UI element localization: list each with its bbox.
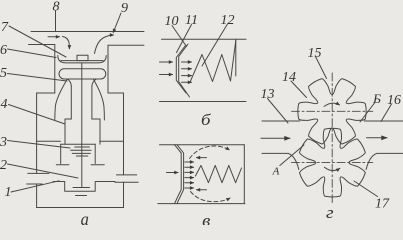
housing bottom	[37, 207, 124, 209]
svg-text:15: 15	[308, 46, 322, 61]
axis vertical	[331, 73, 333, 203]
svg-text:7: 7	[1, 20, 9, 35]
diaphragm mid line	[37, 140, 124, 142]
housing outer wall left	[36, 93, 38, 208]
bell neck right	[92, 79, 97, 86]
valve boss rect	[77, 55, 88, 60]
svg-text:4: 4	[1, 97, 8, 112]
axis horizontal bottom rotor	[292, 162, 373, 164]
rotation arrow top (cw)	[324, 103, 340, 106]
svg-text:13: 13	[261, 87, 275, 102]
svg-text:11: 11	[185, 13, 198, 28]
wire channel lower wall right	[108, 44, 144, 46]
leader 11	[177, 25, 192, 53]
liquid hatch	[71, 147, 92, 156]
svg-text:10: 10	[165, 14, 179, 29]
stem axis	[81, 63, 83, 187]
svg-text:2: 2	[0, 158, 7, 173]
svg-text:3: 3	[0, 135, 7, 150]
svg-text:9: 9	[121, 1, 128, 16]
port upper-left wall	[262, 120, 300, 122]
leader 1	[11, 181, 59, 192]
seat band	[59, 69, 106, 79]
svg-text:16: 16	[387, 93, 401, 108]
leader 10	[172, 26, 187, 47]
bell outer right	[94, 80, 105, 121]
svg-text:8: 8	[53, 0, 60, 15]
stem wall right	[91, 86, 93, 119]
svg-text:б: б	[201, 112, 212, 129]
flow arrow right curve up	[95, 35, 114, 54]
clamp bars left	[27, 173, 49, 184]
v spring	[195, 165, 241, 182]
svg-text:в: в	[202, 211, 210, 225]
collar right	[92, 119, 100, 144]
rotor top (star gear)	[298, 79, 366, 144]
flow arrow left curve down	[63, 37, 70, 49]
leader 13	[268, 99, 289, 124]
flow arrow left horizontal	[48, 36, 60, 38]
v dashed flow top	[190, 146, 230, 159]
v back arrow top	[197, 157, 207, 159]
leader 4	[9, 105, 66, 125]
port lower-right wall	[366, 153, 403, 169]
lower cup bottom caps	[56, 164, 104, 166]
port lower-left wall	[262, 153, 299, 169]
svg-text:6: 6	[0, 43, 7, 58]
b inlet arrow 1	[160, 61, 173, 63]
axis horizontal top rotor	[292, 110, 373, 112]
stem foot T bar	[73, 187, 90, 189]
housing step left	[37, 92, 55, 94]
leader 16	[381, 104, 392, 122]
flow arrow out	[367, 137, 388, 139]
v reed plate open	[175, 145, 184, 204]
rotation arrow bottom (ccw)	[325, 167, 340, 170]
svg-text:12: 12	[221, 13, 235, 28]
leader 6	[8, 49, 57, 58]
svg-text:А: А	[272, 166, 280, 178]
collar left	[65, 119, 71, 144]
b top wall	[162, 38, 247, 40]
svg-text:Б: Б	[372, 91, 381, 106]
flow arrow in	[261, 137, 290, 139]
v pass arrows	[185, 161, 194, 163]
lower cup wall left	[60, 144, 62, 163]
bottom pocket	[53, 182, 115, 192]
svg-text:17: 17	[375, 197, 390, 212]
leader 3	[8, 141, 71, 149]
b right wall	[235, 39, 237, 76]
v bottom wall	[158, 203, 245, 205]
bell neck left	[68, 79, 72, 86]
leader 9	[113, 13, 121, 33]
bell outer left	[55, 80, 67, 120]
port upper-right wall	[364, 120, 403, 122]
b spring	[191, 41, 236, 82]
b reed plate inner	[176, 46, 186, 94]
wire top channel upper wall	[31, 31, 144, 33]
v top wall	[160, 144, 245, 146]
leader 2	[8, 164, 79, 178]
housing inner wall right	[107, 45, 109, 93]
clamp bars right	[115, 175, 138, 182]
v back arrow bottom	[197, 189, 207, 191]
v right wall	[243, 145, 245, 204]
leader 12	[202, 24, 228, 66]
svg-text:14: 14	[282, 70, 296, 85]
leader A	[280, 145, 304, 166]
v inlet arrow	[167, 172, 179, 174]
leader 17	[354, 181, 378, 197]
b bottom wall	[160, 101, 247, 103]
leader 14	[291, 81, 307, 98]
leader 15	[316, 57, 327, 79]
rotor bottom (star gear)	[300, 128, 366, 197]
lower cup wall right	[94, 144, 96, 163]
svg-text:1: 1	[5, 185, 12, 200]
b seep arrows	[182, 61, 192, 63]
lower cup rim	[61, 143, 95, 145]
leader 8	[55, 11, 57, 32]
wire channel lower wall left	[29, 44, 55, 46]
leader B	[360, 103, 375, 122]
svg-text:г: г	[326, 203, 334, 222]
v dashed flow bottom	[191, 192, 231, 202]
housing outer wall right	[123, 93, 125, 208]
valve cup inner bottom	[61, 60, 103, 62]
b reed plate outer	[179, 44, 190, 97]
leader 7	[9, 26, 66, 57]
stem foot lower mark	[76, 195, 87, 197]
housing step right	[108, 92, 124, 94]
stem wall left	[70, 86, 72, 119]
svg-text:а: а	[81, 209, 89, 225]
housing inner wall left	[54, 45, 56, 94]
b inlet arrow 2	[160, 74, 173, 76]
leader 5	[8, 74, 68, 82]
valve cup outer	[58, 56, 106, 63]
svg-text:5: 5	[0, 66, 7, 81]
